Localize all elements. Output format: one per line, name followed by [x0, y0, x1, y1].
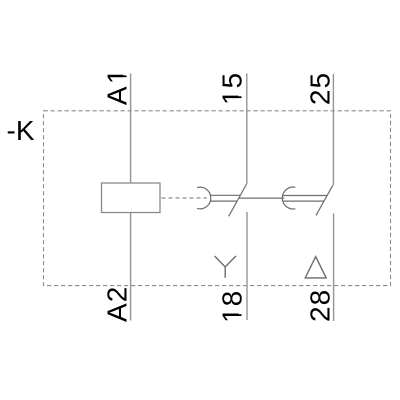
svg-text:A: A: [101, 303, 132, 322]
svg-text:5: 5: [304, 73, 335, 89]
svg-text:5: 5: [217, 73, 248, 89]
svg-text:1: 1: [217, 90, 248, 106]
svg-text:2: 2: [304, 90, 335, 106]
svg-text:1: 1: [217, 307, 248, 323]
svg-text:-K: -K: [7, 115, 35, 146]
svg-text:1: 1: [101, 69, 132, 85]
svg-text:8: 8: [217, 291, 248, 307]
svg-text:8: 8: [304, 290, 335, 306]
svg-text:2: 2: [101, 287, 132, 303]
svg-text:A: A: [101, 86, 132, 105]
svg-text:2: 2: [304, 306, 335, 322]
